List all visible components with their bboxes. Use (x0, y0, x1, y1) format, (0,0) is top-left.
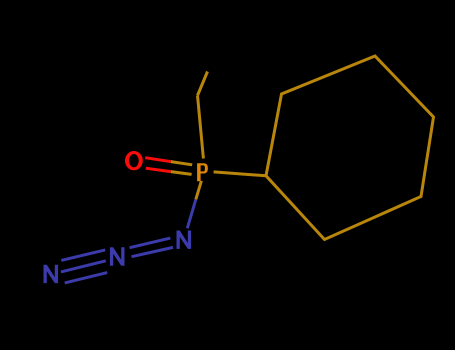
double bond P=O line 2 (lower) (146, 168, 192, 174)
triple bond N2#N3 line 1 (top) (61, 250, 105, 261)
double bond N1=N2 line 1 (upper) (130, 238, 171, 248)
cyclohexane ring C1-C6 (266, 56, 434, 240)
atom label N3 (44, 265, 59, 283)
atom label N1 (177, 231, 192, 249)
triple bond N2#N3 line 3 (bottom) (65, 273, 108, 283)
triple bond N2#N3 line 2 (middle) (61, 261, 106, 272)
atom label N2 (110, 247, 125, 265)
atom label P (197, 163, 208, 181)
wire ethyl CH2 to CH3 (198, 72, 208, 96)
double bond P=O line 1 (upper) (145, 158, 192, 165)
wire P to ring C1 (214, 172, 266, 176)
double bond N1=N2 line 2 (lower) (132, 247, 174, 256)
wire P to ethyl CH2 (198, 96, 204, 159)
atom label O (125, 151, 143, 170)
wire P to azide N1 (187, 181, 201, 229)
